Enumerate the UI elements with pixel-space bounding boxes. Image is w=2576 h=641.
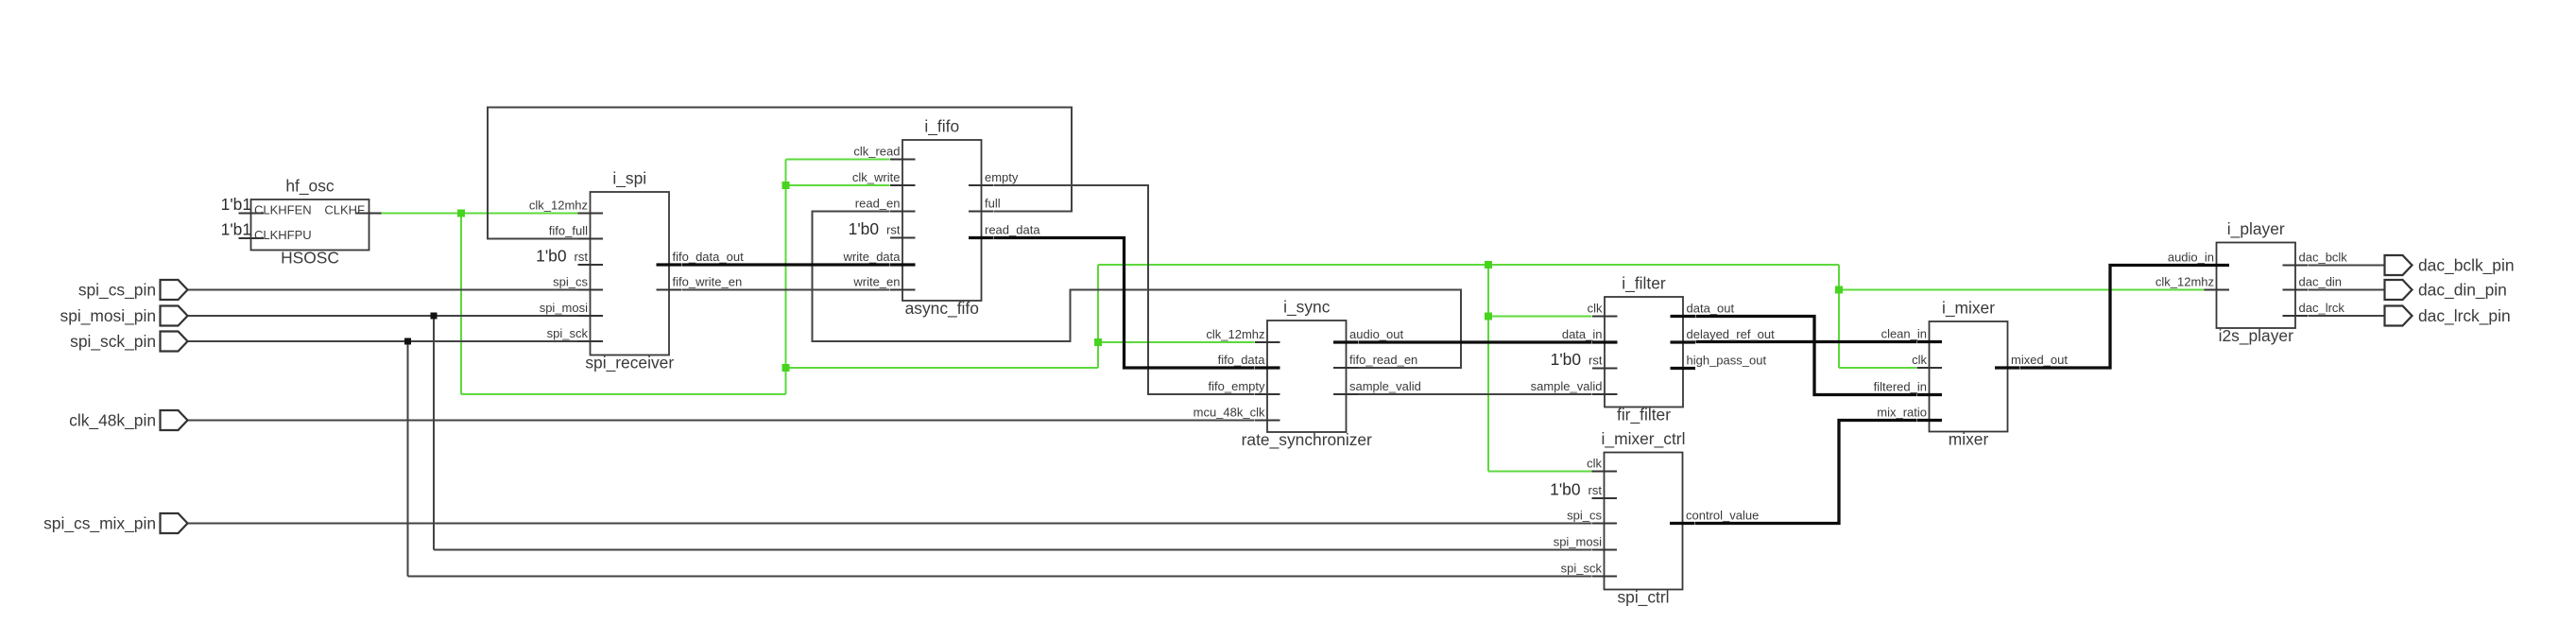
i_fifo pin clk_read (input, y=168.5) [890, 159, 916, 161]
bus i_mixer_ctrl control_value to i_mixer mix_ratio [1695, 421, 1916, 524]
i_spi pin fifo_full (input, y=252.5) [578, 238, 604, 240]
svg-text:spi_ctrl: spi_ctrl [1617, 588, 1669, 607]
i_sync pin audio_out (output, y=362) [1333, 340, 1359, 343]
svg-text:sample_valid: sample_valid [1349, 379, 1421, 393]
wire clk net vertical riser at x=831 [785, 160, 787, 395]
svg-text:1'b0: 1'b0 [536, 247, 566, 266]
wire clk net vertical drop at x=1946 [1838, 265, 1840, 368]
input port spi_cs_pin [161, 280, 188, 300]
svg-text:mixed_out: mixed_out [2011, 353, 2068, 367]
i_sync pin fifo_empty (input, y=417) [1255, 393, 1280, 395]
i_fifo pin read_data (output, y=251.5) [969, 236, 994, 239]
bus i_fifo read_data to i_sync fifo_data [994, 238, 1255, 369]
bus i_mixer mixed_out to i_player audio_in [2020, 266, 2205, 369]
module i_player (i2s_player) box [2217, 243, 2296, 329]
i_filter pin data_in (input, y=362) [1592, 340, 1618, 343]
svg-text:1'b1: 1'b1 [221, 195, 251, 214]
i_mixer_ctrl pin spi_cs (input, y=553.5) [1592, 523, 1618, 525]
wire clk net to i_fifo clk_write [786, 184, 890, 186]
i_sync pin clk_12mhz (input, y=362) [1255, 341, 1280, 343]
input port spi_cs_mix_pin [161, 513, 188, 533]
svg-text:filtered_in: filtered_in [1874, 380, 1927, 394]
i_fifo pin clk_write (input, y=196) [890, 184, 916, 186]
hf_osc pin ? (input, y=252) [239, 237, 265, 239]
wire spi_mosi branch vertical [433, 316, 435, 550]
wire clk net to i_player clk_12mhz [1839, 289, 2205, 291]
svg-text:spi_cs_pin: spi_cs_pin [78, 280, 156, 299]
svg-text:i_filter: i_filter [1622, 274, 1666, 293]
wire i_spi fifo_write_en to i_fifo write_en [682, 289, 890, 291]
svg-text:clk_12mhz: clk_12mhz [1206, 327, 1264, 341]
svg-text:spi_mosi: spi_mosi [540, 301, 588, 315]
svg-text:clk_write: clk_write [852, 170, 901, 184]
i_mixer pin clk (input, y=389) [1917, 367, 1943, 369]
svg-text:hf_osc: hf_osc [285, 177, 335, 196]
svg-text:i_sync: i_sync [1283, 298, 1331, 317]
bus i_spi fifo_data_out to i_fifo write_data [682, 263, 890, 266]
svg-text:HSOSC: HSOSC [281, 249, 339, 268]
wire clk net long horizontal at y=280 [1098, 264, 1839, 266]
i_fifo pin write_en (input, y=306.5) [890, 289, 916, 291]
svg-text:spi_sck: spi_sck [547, 326, 589, 340]
module i_mixer (mixer) box [1930, 321, 2008, 432]
bus i_filter data_out to i_mixer filtered_in [1696, 317, 1917, 395]
svg-text:control_value: control_value [1686, 509, 1759, 523]
svg-text:fifo_read_en: fifo_read_en [1349, 353, 1417, 367]
i_mixer_ctrl pin clk (input, y=498.5) [1592, 471, 1618, 473]
module i_sync (rate_synchronizer) box [1267, 320, 1347, 432]
input port spi_mosi_pin [161, 306, 188, 326]
svg-text:CLKHFEN: CLKHFEN [254, 203, 312, 217]
svg-text:spi_cs: spi_cs [553, 275, 588, 289]
svg-text:dac_lrck_pin: dac_lrck_pin [2418, 306, 2511, 325]
wire spi_mosi_pin to i_spi spi_mosi [188, 315, 578, 317]
wire spi_sck_pin to i_spi spi_sck [188, 340, 578, 342]
i_mixer pin mixed_out (output, y=389) [1995, 366, 2020, 369]
input port clk_48k_pin [161, 410, 188, 430]
wire i_fifo empty to i_sync fifo_empty [994, 185, 1255, 394]
svg-text:rst: rst [1589, 354, 1603, 368]
svg-text:dac_bclk_pin: dac_bclk_pin [2418, 255, 2515, 274]
hf_osc pin ? (output, y=225.5) [356, 213, 382, 215]
wire clk net to i_filter clk [1488, 316, 1592, 318]
svg-text:fifo_data: fifo_data [1218, 353, 1266, 367]
wire i_player dac_din to port [2309, 289, 2385, 291]
junction spi_sck [404, 338, 411, 345]
i_spi pin rst (input, y=280) [578, 264, 604, 266]
svg-text:async_fifo: async_fifo [905, 299, 979, 318]
i_filter pin clk (input, y=334.5) [1592, 316, 1618, 318]
svg-text:spi_cs: spi_cs [1567, 509, 1602, 523]
wire clk net vertical drop at x=1575 [1487, 265, 1489, 472]
svg-text:fifo_empty: fifo_empty [1209, 379, 1265, 393]
svg-text:fir_filter: fir_filter [1617, 406, 1671, 424]
i_fifo pin empty (output, y=196) [969, 184, 994, 186]
svg-text:1'b0: 1'b0 [1551, 350, 1581, 369]
i_filter pin rst (input, y=389.5) [1592, 368, 1618, 370]
svg-text:dac_din: dac_din [2299, 275, 2343, 289]
svg-text:fifo_data_out: fifo_data_out [673, 250, 745, 264]
i_mixer_ctrl pin control_value (output, y=553.5) [1670, 522, 1695, 525]
svg-text:1'b1: 1'b1 [221, 220, 251, 239]
svg-text:spi_cs_mix_pin: spi_cs_mix_pin [43, 513, 156, 532]
svg-text:rate_synchronizer: rate_synchronizer [1242, 430, 1372, 449]
svg-text:clk_48k_pin: clk_48k_pin [69, 410, 156, 429]
i_sync pin fifo_data (input, y=389) [1255, 366, 1280, 369]
svg-text:spi_sck: spi_sck [1561, 562, 1603, 576]
wire spi_cs_mix_pin to i_mixer_ctrl spi_cs [188, 523, 1592, 525]
wire spi_mosi branch to i_mixer_ctrl spi_mosi [434, 549, 1591, 551]
wire clk net to i_mixer clk [1839, 367, 1916, 369]
svg-text:sample_valid: sample_valid [1531, 379, 1603, 393]
i_mixer_ctrl pin spi_mosi (input, y=581.5) [1592, 549, 1618, 551]
svg-text:i_mixer: i_mixer [1942, 299, 1995, 318]
hf_osc pin ? (input, y=225.5) [239, 213, 265, 215]
svg-text:write_data: write_data [843, 250, 902, 264]
svg-text:spi_sck_pin: spi_sck_pin [70, 332, 156, 351]
svg-text:audio_out: audio_out [1349, 327, 1403, 341]
svg-text:clk_12mhz: clk_12mhz [2155, 275, 2214, 289]
i_player pin dac_din (output, y=306.5) [2283, 289, 2309, 291]
svg-text:read_data: read_data [985, 223, 1040, 237]
svg-text:full: full [985, 197, 1001, 211]
output port dac_din_pin [2385, 280, 2413, 300]
svg-text:read_en: read_en [855, 197, 901, 211]
svg-text:i2s_player: i2s_player [2219, 326, 2293, 345]
svg-text:CLKHFPU: CLKHFPU [254, 228, 312, 242]
wire clk_48k_pin to i_sync mcu_48k_clk [188, 420, 1255, 422]
svg-text:fifo_write_en: fifo_write_en [673, 275, 743, 289]
junction spi_mosi [431, 313, 438, 320]
svg-text:audio_in: audio_in [2168, 251, 2214, 265]
i_mixer pin mix_ratio (input, y=444.5) [1917, 419, 1943, 422]
output port dac_bclk_pin [2385, 255, 2413, 275]
svg-text:1'b0: 1'b0 [1550, 480, 1580, 499]
i_sync pin fifo_read_en (output, y=389) [1333, 367, 1359, 369]
green junction J0 [457, 210, 465, 217]
svg-text:mcu_48k_clk: mcu_48k_clk [1194, 406, 1265, 420]
i_spi pin clk_12mhz (input, y=225.5) [578, 213, 604, 215]
svg-text:clk_read: clk_read [853, 145, 900, 159]
module hf_osc (HSOSC) box [251, 199, 369, 251]
svg-text:clk: clk [1912, 353, 1927, 367]
svg-text:clk: clk [1587, 457, 1602, 471]
i_mixer_ctrl pin rst (input, y=527) [1592, 497, 1618, 499]
module i_mixer_ctrl (spi_ctrl) box [1605, 453, 1683, 590]
i_sync pin sample_valid (output, y=417) [1333, 393, 1359, 395]
svg-text:fifo_full: fifo_full [549, 224, 588, 238]
green junction J2 [1094, 338, 1102, 346]
module i_filter (fir_filter) box [1605, 297, 1683, 407]
svg-text:i_spi: i_spi [612, 169, 646, 188]
wire i_sync sample_valid to i_filter sample_valid [1359, 393, 1592, 395]
i_spi pin spi_mosi (input, y=334) [578, 315, 604, 317]
i_player pin dac_lrck (output, y=334) [2283, 315, 2309, 317]
svg-text:dac_lrck: dac_lrck [2299, 301, 2345, 315]
input port spi_sck_pin [161, 332, 188, 352]
svg-text:data_out: data_out [1687, 302, 1735, 316]
i_filter pin delayed_ref_out (output, y=362) [1671, 340, 1696, 343]
i_mixer pin filtered_in (input, y=417.5) [1917, 393, 1943, 396]
svg-text:i_player: i_player [2227, 219, 2285, 238]
wire spi_sck branch to i_mixer_ctrl spi_sck [408, 576, 1592, 578]
i_player pin audio_in (input, y=280.5) [2205, 264, 2230, 267]
wire i_sync fifo_read_en loop to i_fifo read_en [813, 212, 1462, 369]
wire clk net horizontal to fifo column [461, 393, 786, 395]
svg-text:i_fifo: i_fifo [924, 117, 959, 136]
svg-text:empty: empty [985, 170, 1019, 184]
svg-text:rst: rst [1589, 483, 1603, 497]
module i_spi (spi_receiver) box [591, 192, 670, 355]
i_spi pin fifo_data_out (output, y=280) [657, 263, 682, 266]
green junction J6 [1835, 286, 1843, 294]
svg-text:clean_in: clean_in [1881, 327, 1927, 341]
svg-text:rst: rst [886, 223, 901, 237]
wire clk net to i_sync clk_12mhz [1098, 341, 1255, 343]
i_fifo pin write_data (input, y=280) [890, 263, 916, 266]
svg-text:high_pass_out: high_pass_out [1687, 354, 1767, 368]
svg-text:write_en: write_en [852, 275, 900, 289]
i_spi pin fifo_write_en (output, y=306.5) [657, 289, 682, 291]
svg-text:data_in: data_in [1562, 327, 1603, 341]
green junction at clk_write branch [782, 182, 790, 189]
i_fifo pin read_en (input, y=223.5) [890, 211, 916, 213]
svg-text:clk_12mhz: clk_12mhz [529, 199, 588, 213]
output port dac_lrck_pin [2385, 306, 2413, 326]
wire clk net to i_mixer_ctrl clk [1488, 471, 1592, 473]
wire clk net to i_fifo clk_read [786, 159, 890, 161]
svg-text:CLKHF: CLKHF [324, 203, 365, 217]
svg-text:rst: rst [575, 250, 589, 264]
wire i_player dac_bclk to port [2309, 265, 2385, 267]
green junction J5 [1485, 313, 1492, 320]
i_player pin dac_bclk (output, y=280.5) [2283, 265, 2309, 267]
bus i_filter delayed_ref_out to i_mixer clean_in [1696, 340, 1917, 343]
svg-text:dac_bclk: dac_bclk [2299, 251, 2348, 265]
svg-text:dac_din_pin: dac_din_pin [2418, 280, 2507, 299]
bus i_sync audio_out to i_filter data_in [1359, 340, 1592, 343]
wire i_player dac_lrck to port [2309, 315, 2385, 317]
wire spi_cs_pin to i_spi spi_cs [188, 289, 578, 291]
svg-text:clk: clk [1588, 302, 1603, 316]
wire clk net vertical drop from junction J0 [460, 214, 462, 395]
svg-text:delayed_ref_out: delayed_ref_out [1687, 327, 1776, 341]
i_sync pin mcu_48k_clk (input, y=444.5) [1255, 420, 1280, 422]
i_spi pin spi_cs (input, y=306.5) [578, 289, 604, 291]
svg-text:mix_ratio: mix_ratio [1877, 406, 1927, 420]
i_fifo pin full (output, y=223.5) [969, 211, 994, 213]
wire spi_sck branch vertical [407, 341, 409, 577]
green junction J4 [1485, 261, 1492, 269]
svg-text:1'b0: 1'b0 [849, 219, 879, 238]
wire i_fifo full loop to i_spi fifo_full [488, 108, 1072, 239]
i_filter pin data_out (output, y=334.5) [1671, 315, 1696, 318]
i_filter pin high_pass_out (output, y=389.5) [1671, 367, 1696, 370]
wire clk net (green) hf_osc CLKHF to i_spi clk_12mhz [380, 213, 578, 215]
i_spi pin spi_sck (input, y=361) [578, 340, 604, 342]
svg-text:i_mixer_ctrl: i_mixer_ctrl [1602, 429, 1686, 448]
i_filter pin sample_valid (input, y=417) [1592, 393, 1618, 395]
i_player pin clk_12mhz (input, y=306.5) [2205, 289, 2230, 291]
wire clk net vertical riser at x=1162 [1097, 265, 1099, 368]
svg-text:spi_receiver: spi_receiver [585, 354, 674, 372]
green junction J1 [782, 364, 790, 372]
svg-text:spi_mosi: spi_mosi [1554, 535, 1602, 549]
wire clk net horizontal toward i_sync column [786, 367, 1099, 369]
svg-text:spi_mosi_pin: spi_mosi_pin [60, 306, 157, 325]
i_mixer pin clean_in (input, y=361.5) [1917, 340, 1943, 343]
svg-text:mixer: mixer [1949, 430, 1989, 449]
i_mixer_ctrl pin spi_sck (input, y=609.5) [1592, 576, 1618, 578]
module i_fifo (async_fifo) box [902, 140, 982, 301]
i_fifo pin rst (input, y=251.5) [890, 237, 916, 239]
